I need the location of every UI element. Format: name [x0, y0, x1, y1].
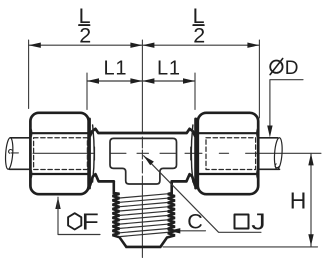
svg-text:J: J [251, 208, 265, 234]
dimension line L/2 left [29, 44, 143, 46]
right nut bore (hidden, dashed) [206, 138, 256, 170]
dimension line L1 right [142, 80, 195, 82]
svg-text:2: 2 [193, 23, 205, 47]
dimension extension lines [29, 40, 260, 118]
right nut chamfer arcs [257, 128, 258, 180]
J arrowhead [144, 156, 154, 166]
svg-text:L1: L1 [104, 57, 128, 79]
svg-text:D: D [285, 58, 299, 79]
right nut outline [198, 113, 258, 194]
stud thread crest lines [120, 194, 168, 237]
left nut bore (hidden, dashed) [34, 138, 88, 170]
leader ØD [270, 80, 303, 127]
hexagon symbol F [68, 213, 81, 229]
right nut hex flat lines [198, 133, 258, 174]
cone center tick left [94, 147, 96, 160]
cone center tick right [190, 147, 192, 160]
C leader line [168, 230, 205, 232]
label L/2 left [79, 4, 92, 48]
label ØD : diameter symbol [270, 60, 282, 72]
left nut inner face [88, 119, 91, 188]
left cone arc [93, 125, 95, 182]
body inner block outline [110, 138, 177, 184]
right cone arc [191, 125, 193, 182]
left nut chamfer arcs [31, 128, 32, 180]
F leader line [58, 197, 100, 234]
arrowheads L1 left [87, 78, 142, 83]
arrowheads L/2 left [29, 43, 143, 48]
left tube [10, 138, 31, 170]
left tube break curve [5, 137, 14, 169]
svg-text:F: F [82, 210, 99, 235]
C arrowhead [168, 228, 180, 233]
F leader arrow [55, 197, 60, 209]
J leader diagonal [144, 156, 261, 233]
body bottom silhouette left [90, 174, 114, 185]
body bottom silhouette right [172, 174, 195, 185]
svg-text:2: 2 [79, 23, 91, 47]
H dimension line [310, 153, 312, 247]
square symbol J [235, 215, 249, 229]
H bottom extension line [163, 246, 318, 248]
arrowheads L/2 right [142, 43, 259, 48]
fraction bar right [193, 24, 204, 26]
dimension line L/2 right [142, 44, 259, 46]
arrowhead ØD [267, 126, 272, 138]
dimension line L1 left [87, 80, 142, 82]
body top silhouette [90, 129, 195, 136]
svg-text:L1: L1 [157, 57, 181, 79]
right tube [258, 138, 280, 170]
right tube break curve [274, 137, 284, 169]
svg-text:H: H [290, 188, 307, 214]
fraction bar left [79, 24, 90, 26]
arrowheads L1 right [142, 78, 195, 83]
label L/2 right [193, 4, 206, 48]
horizontal centerline [11, 152, 321, 154]
threaded stud outline [113, 182, 175, 247]
right nut inner face [194, 119, 197, 188]
vertical centerline [141, 40, 143, 258]
left nut hex flat lines [31, 133, 89, 174]
arrowheads H [308, 153, 313, 246]
left nut outline [30, 113, 88, 194]
